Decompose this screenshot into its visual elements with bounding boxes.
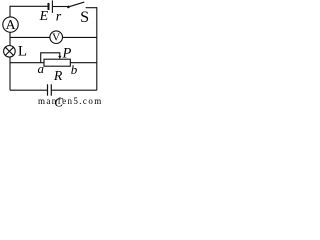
svg-text:R: R <box>53 68 63 83</box>
wire capacitor row left <box>10 89 47 91</box>
battery short thick plate (negative) <box>48 3 50 10</box>
svg-text:P: P <box>62 45 72 61</box>
wire capacitor row right <box>52 89 97 91</box>
voltmeter V <box>50 31 63 44</box>
rheostat slider P wire <box>41 53 60 63</box>
lamp L <box>4 46 16 58</box>
wire left vertical lower (lamp to bottom-left corner) <box>9 57 11 90</box>
svg-text:manfen5.com: manfen5.com <box>38 96 103 106</box>
svg-text:L: L <box>18 43 27 59</box>
svg-text:b: b <box>71 62 78 77</box>
capacitor C <box>48 84 52 95</box>
wire top-left (battery to top-left corner) <box>10 5 48 7</box>
svg-text:A: A <box>5 18 16 33</box>
wire rheostat row left <box>10 62 44 64</box>
switch S <box>67 2 84 8</box>
wire left vertical upper (corner to ammeter) <box>9 6 11 17</box>
wire battery to switch <box>53 6 68 8</box>
svg-text:a: a <box>38 61 45 76</box>
wire right vertical <box>96 7 98 90</box>
switch pivot dot <box>67 6 70 9</box>
svg-text:E: E <box>39 9 49 24</box>
wire switch to top-right corner <box>86 7 97 9</box>
wire voltmeter row right <box>63 36 97 38</box>
ammeter A <box>3 17 18 33</box>
battery E r <box>49 0 53 13</box>
wire rheostat row right <box>70 62 97 64</box>
svg-text:r: r <box>56 9 62 24</box>
wire left vertical between ammeter and lamp <box>9 32 11 46</box>
rheostat slider arrowhead <box>58 56 61 59</box>
rheostat R (resistor box) <box>44 59 70 66</box>
background <box>0 0 106 107</box>
svg-text:S: S <box>80 8 89 26</box>
wire voltmeter row left <box>10 36 50 38</box>
svg-text:V: V <box>52 31 60 43</box>
svg-text:C: C <box>54 95 63 108</box>
switch arm <box>68 2 84 7</box>
battery long thin plate (positive) <box>51 0 53 13</box>
